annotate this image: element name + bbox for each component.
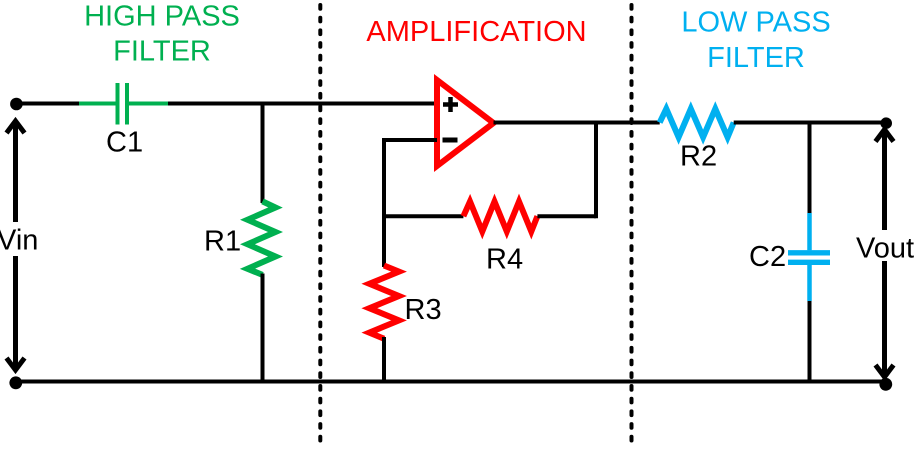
section divider dashed line 2	[630, 5, 634, 449]
capacitor C2	[788, 213, 830, 301]
svg-text:HIGH PASS: HIGH PASS	[84, 1, 240, 33]
Vin measurement arrow	[7, 121, 25, 370]
node output top	[880, 117, 892, 129]
resistor R3	[369, 266, 399, 339]
wire C2 branch upper	[808, 123, 812, 214]
resistor R1	[248, 201, 276, 275]
capacitor C1	[79, 83, 168, 125]
resistor R4	[463, 202, 537, 232]
svg-text:FILTER: FILTER	[707, 42, 805, 74]
svg-text:R1: R1	[204, 226, 241, 258]
svg-text:Vout: Vout	[856, 233, 914, 265]
wire from C1 to op-amp non-inverting input	[168, 102, 437, 106]
wire R4 right segment	[537, 214, 596, 218]
wire op-amp output	[494, 121, 660, 125]
resistor R2	[660, 109, 734, 137]
svg-text:R4: R4	[486, 244, 523, 276]
wire R1 branch lower	[261, 274, 265, 382]
wire R3 lower	[382, 337, 386, 382]
wire R2 to output node	[734, 121, 886, 125]
svg-text:Vin: Vin	[0, 225, 38, 257]
node input top	[10, 98, 23, 111]
wire inverting input	[384, 138, 437, 142]
svg-text:C2: C2	[749, 241, 786, 273]
svg-text:C1: C1	[106, 127, 143, 159]
wire C2 branch lower	[808, 301, 812, 382]
wire R4 left segment	[384, 214, 463, 218]
section divider dashed line 1	[318, 5, 322, 449]
op-amp U1	[437, 80, 494, 166]
svg-text:AMPLIFICATION: AMPLIFICATION	[366, 16, 586, 48]
Vout measurement arrow	[876, 130, 894, 378]
wire top-left from input node to C1	[16, 102, 79, 106]
svg-text:FILTER: FILTER	[113, 36, 211, 68]
svg-text:R3: R3	[405, 294, 442, 326]
svg-text:LOW PASS: LOW PASS	[681, 7, 830, 39]
wire feedback right vertical	[594, 123, 598, 219]
node output bottom	[879, 378, 892, 391]
wire R1 branch upper	[261, 104, 265, 204]
node input bottom	[9, 376, 22, 389]
svg-text:R2: R2	[680, 141, 717, 173]
wire feedback left vertical	[382, 138, 386, 267]
wire bottom rail	[16, 380, 886, 384]
